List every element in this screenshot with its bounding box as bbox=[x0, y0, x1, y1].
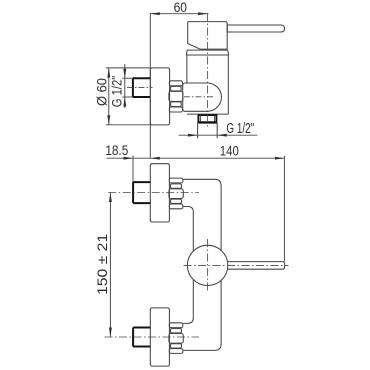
body right edge bbox=[227, 55, 229, 114]
Ø60 extension top bbox=[106, 67, 151, 69]
body bottom edge bbox=[187, 113, 228, 115]
lever handle (side view, pill shape) bbox=[227, 25, 284, 32]
18.5 / 140 dimension line bbox=[107, 157, 285, 159]
wall supply nipple (side view, thick edges) bbox=[133, 77, 150, 79]
top escutcheon bbox=[150, 164, 169, 222]
18.5 arrow (outside, pointing right) bbox=[124, 157, 134, 160]
G1/2 side arrows (outside pointing in) bbox=[123, 69, 126, 79]
inlet boss capsule bbox=[183, 83, 222, 111]
60 dim arrows bbox=[150, 12, 160, 15]
cartridge circle bbox=[187, 245, 227, 285]
G1/2 side extension top bbox=[122, 77, 133, 79]
front horizontal centerline through circle and lever bbox=[184, 264, 289, 266]
hex nut (side view): five facet bands bbox=[169, 81, 182, 86]
svg-text:60: 60 bbox=[174, 0, 187, 15]
body left edge bbox=[186, 55, 188, 83]
bottom hex nut: five facet bands bbox=[169, 323, 183, 328]
extension line nipple wall face x=133 bbox=[132, 156, 134, 183]
bottom escutcheon bbox=[150, 308, 169, 366]
shower outlet nipple (bottom of body) bbox=[197, 114, 199, 123]
outlet G1/2 arrows bbox=[188, 134, 198, 137]
150±21 bottom arrow (pointing down) bbox=[109, 328, 112, 338]
top wall nipple (thick edges) bbox=[133, 181, 150, 183]
svg-text:150 ± 21: 150 ± 21 bbox=[94, 234, 110, 296]
lever handle (front view) bbox=[227, 262, 284, 270]
extension line at wall face x=150.3 bbox=[149, 13, 151, 158]
wall flange escutcheon (side view) bbox=[150, 68, 169, 125]
vertical centerline of body (top view) bbox=[207, 13, 209, 129]
svg-text:140: 140 bbox=[220, 142, 239, 158]
Ø60 arrows bbox=[107, 68, 110, 78]
mixer head cap bbox=[188, 22, 228, 50]
front vertical centerline through circle bbox=[207, 239, 209, 292]
outlet G1/2 dim line bbox=[179, 134, 258, 136]
dim Ø60 line bbox=[108, 68, 110, 125]
side nipple centerline bbox=[127, 87, 153, 89]
G1/2 side extension bottom bbox=[122, 96, 133, 98]
Ø60 extension bottom bbox=[106, 124, 151, 126]
svg-text:G 1/2": G 1/2" bbox=[108, 76, 124, 108]
140 right arrow (pointing right) bbox=[275, 157, 285, 160]
bottom wall nipple (thick edges) bbox=[133, 327, 150, 329]
svg-text:Ø 60: Ø 60 bbox=[94, 78, 109, 106]
front bottom connection centerline bbox=[105, 336, 200, 338]
svg-text:G 1/2": G 1/2" bbox=[226, 120, 254, 137]
top supply pipe elbow bbox=[183, 179, 221, 250]
extension line lever tip x=284.4 bbox=[283, 156, 285, 261]
150±21 top arrow (pointing up) bbox=[109, 193, 112, 203]
G1/2 side dim line bbox=[124, 64, 126, 108]
svg-text:18.5: 18.5 bbox=[105, 143, 128, 158]
boss horizontal centerline (top view) bbox=[184, 96, 214, 98]
dim 150±21 line bbox=[109, 193, 111, 338]
dim 60 line bbox=[150, 13, 208, 15]
neck ring (trapezoid) bbox=[186, 50, 228, 55]
top hex nut: five facet bands bbox=[169, 178, 183, 183]
front top connection centerline bbox=[108, 192, 199, 194]
140 left arrow (pointing left) bbox=[150, 157, 160, 160]
bottom supply pipe elbow bbox=[183, 280, 221, 350]
